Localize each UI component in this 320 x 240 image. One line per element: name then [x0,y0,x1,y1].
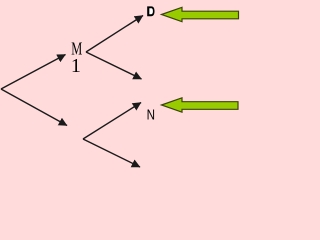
wire M to lower outcome [86,52,142,79]
green arrow 2 (points to N) [162,98,239,112]
wire root to M [1,55,66,90]
svg-text:N: N [147,107,155,123]
green arrow 1 (points to D) [162,7,239,21]
svg-text:1: 1 [71,55,81,77]
wire root to lower branch [1,89,67,126]
wire lower branch to N [83,103,141,140]
wire lower branch to bottom outcome [83,139,140,167]
node D label (bold D with white counter) [147,6,154,16]
wire M to D [86,16,143,53]
